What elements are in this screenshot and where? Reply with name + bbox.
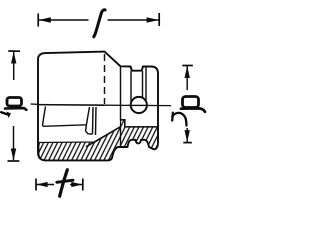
socket outer profile (38, 52, 158, 161)
dimension d1 top tick (8, 50, 20, 52)
dimension l left arrow (39, 17, 51, 22)
center line right part (105, 104, 172, 106)
dimension d1 bottom tick (8, 160, 20, 162)
dimension t left tick (35, 179, 37, 191)
label d1 stem (5, 108, 26, 110)
dimension t right arrow (71, 182, 82, 187)
dimension t line right (70, 184, 83, 186)
dimension d1 down arrow (11, 149, 16, 161)
dimension d2 up arrow (185, 66, 190, 78)
label d1 bowl (7, 98, 22, 107)
dimension d2 line upper (186, 66, 188, 90)
label d1 subscript 1 (1, 112, 8, 115)
dimension l right arrow (147, 17, 159, 22)
hex flat divider line (43, 125, 87, 127)
hex bore bottom connector (86, 131, 93, 134)
dimension t left arrow (36, 182, 47, 187)
hatch wall under square drive hole (121, 120, 159, 149)
dimension t line left (37, 184, 55, 186)
groove left edge line (130, 71, 132, 102)
label d2 subscript 2 (171, 113, 174, 121)
dimension d1 up arrow (11, 52, 16, 64)
dimension d2 line lower (186, 128, 188, 142)
dimension d1 line lower (13, 126, 15, 160)
hex entry chamfer line (43, 107, 46, 127)
collar edge line (145, 67, 147, 102)
label t stem (60, 170, 68, 196)
center line stub (31, 103, 38, 105)
dimension d1 line upper (13, 52, 15, 80)
dimension l left tick (37, 14, 39, 27)
groove right edge line (142, 71, 144, 98)
label d2 stem (181, 108, 205, 111)
hex bore end vertical 1 (92, 107, 95, 134)
dimension d2 down arrow (185, 130, 190, 142)
hatch band lower wall under hex bore (39, 127, 121, 161)
pin hole center line (132, 104, 147, 106)
section cut diagonal boundary (86, 127, 120, 147)
square hole bottom step (121, 120, 158, 127)
dimension l line right (108, 19, 159, 21)
dimension d2 top tick (182, 65, 193, 67)
hidden edge dashed line at hex body end (104, 54, 106, 104)
dimension d2 bottom tick (183, 142, 192, 144)
dimension l right tick (158, 13, 160, 26)
dimension l line left (39, 19, 89, 21)
dimension t right tick (82, 179, 84, 191)
pin hole circle (131, 97, 147, 113)
label l (94, 10, 105, 37)
label t crossbar (57, 180, 73, 182)
label d2 bowl (183, 97, 199, 108)
hex bore top edge on centerline (38, 104, 105, 107)
chamfer end vertical line (120, 67, 122, 120)
hex bore cone left line (86, 107, 90, 131)
hex bore end vertical 2 (95, 107, 98, 135)
